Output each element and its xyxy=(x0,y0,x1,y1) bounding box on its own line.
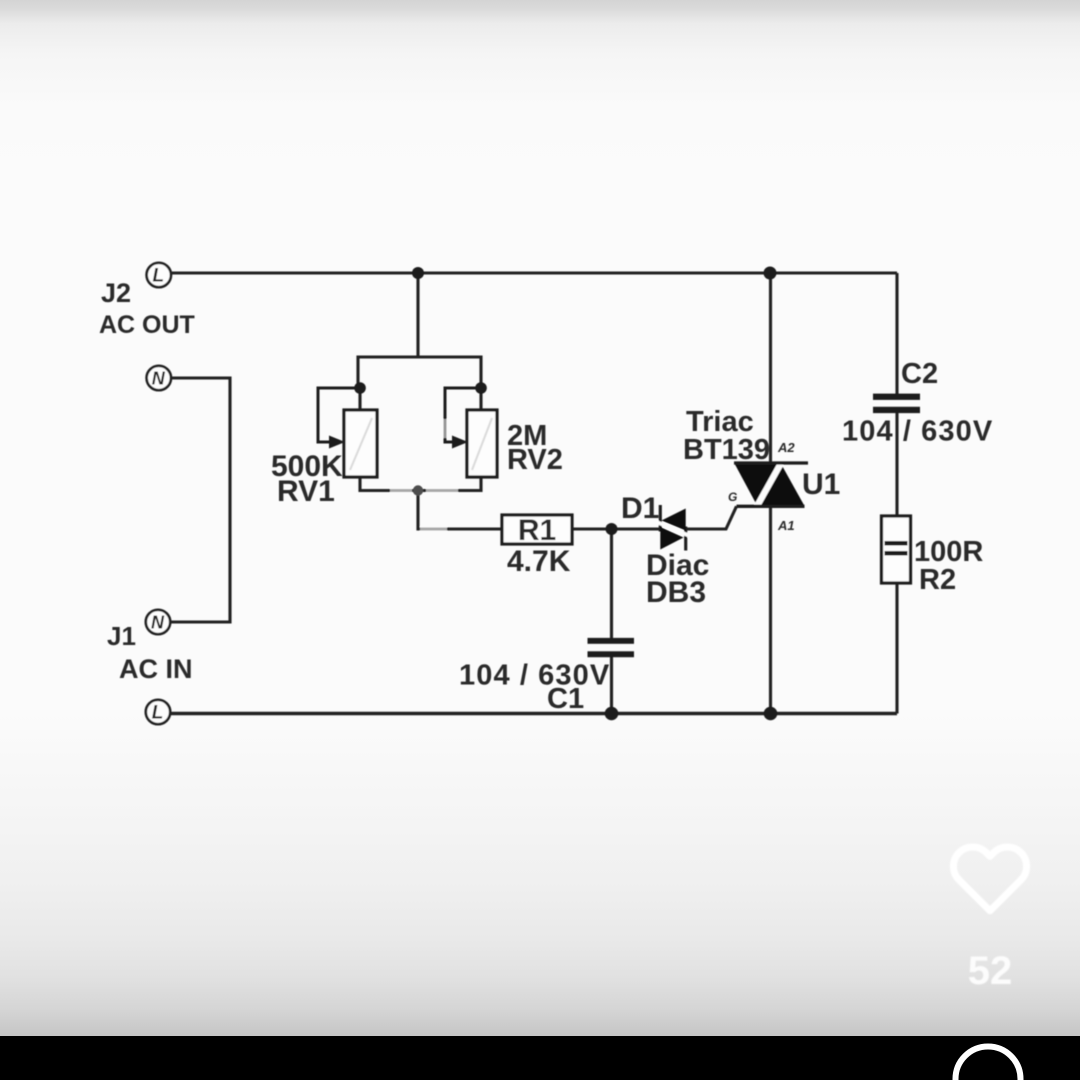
wire pot top rail xyxy=(358,357,481,388)
svg-text:L: L xyxy=(152,703,164,724)
svg-text:BT139: BT139 xyxy=(683,434,770,466)
terminal J1 L xyxy=(146,700,170,724)
diac D1 xyxy=(656,505,691,551)
terminal J2 N xyxy=(147,366,171,390)
svg-text:RV1: RV1 xyxy=(277,475,335,508)
wire C1 drop xyxy=(610,529,613,639)
wire R1 to node xyxy=(572,527,660,530)
wire right branch vertical (C2/R2 branch) xyxy=(895,273,898,395)
svg-text:J2: J2 xyxy=(101,278,131,308)
potentiometer RV1 ghost diagonal xyxy=(350,418,372,470)
node dot RV2 wiper xyxy=(475,382,487,394)
wire pot feed from top rail xyxy=(416,273,419,357)
node dot top-right xyxy=(764,267,777,280)
svg-text:C1: C1 xyxy=(547,683,584,715)
svg-text:U1: U1 xyxy=(802,468,840,501)
wire diac to triac gate xyxy=(686,506,737,529)
terminal J1 N xyxy=(146,610,170,634)
wire neutral link J2N to J1N xyxy=(171,378,230,622)
terminal J2 L xyxy=(147,263,171,287)
svg-text:52: 52 xyxy=(968,949,1013,993)
svg-text:L: L xyxy=(152,266,164,287)
svg-text:104 / 630V: 104 / 630V xyxy=(459,660,610,692)
wire RV1 leads xyxy=(358,388,361,410)
potentiometer RV2 wiper arm xyxy=(445,388,481,449)
svg-text:AC IN: AC IN xyxy=(119,654,193,684)
bottom black bar xyxy=(0,1036,1080,1080)
potentiometer RV2 ghost diagonal xyxy=(472,418,492,470)
profile circle (bottom UI) xyxy=(956,1047,1021,1080)
resistor R1 body xyxy=(502,515,572,544)
svg-text:N: N xyxy=(152,369,166,389)
triac U1 xyxy=(734,462,808,507)
svg-text:4.7K: 4.7K xyxy=(507,545,571,578)
node dot R1/C1/diac junction xyxy=(606,523,618,535)
wire RV2 leads xyxy=(479,388,482,410)
capacitor C2 plates xyxy=(873,394,920,413)
potentiometer RV1 wiper arm xyxy=(318,388,360,449)
svg-text:G: G xyxy=(728,490,737,504)
wire pot output to R1 xyxy=(418,491,502,529)
capacitor C1 plates xyxy=(588,638,635,657)
svg-text:R1: R1 xyxy=(518,514,556,547)
svg-text:J1: J1 xyxy=(107,621,136,651)
wire fade artifacts (video compression) xyxy=(390,491,458,530)
wire pot bottom rail xyxy=(360,489,481,492)
svg-text:A1: A1 xyxy=(777,518,795,533)
wire triac vertical xyxy=(769,273,772,714)
node dot pot output (gray) xyxy=(413,485,423,495)
node dot bottom C1 xyxy=(605,707,619,721)
resistor R2 inner bands xyxy=(885,541,908,556)
svg-text:C2: C2 xyxy=(901,358,938,390)
like heart icon xyxy=(953,847,1026,993)
wire bottom rail xyxy=(170,712,897,715)
potentiometer RV2 body xyxy=(467,410,497,477)
node dot RV1 wiper xyxy=(354,382,366,394)
svg-text:A2: A2 xyxy=(777,440,795,455)
node dot bottom triac xyxy=(764,707,778,721)
node dot top-left xyxy=(412,267,424,279)
svg-text:DB3: DB3 xyxy=(646,576,706,609)
wire top rail (L of J2 to right branch) xyxy=(169,271,897,274)
svg-text:104 / 630V: 104 / 630V xyxy=(842,416,993,448)
resistor R2 body xyxy=(882,516,911,583)
svg-text:D1: D1 xyxy=(621,492,659,525)
svg-text:R2: R2 xyxy=(919,564,956,596)
svg-text:RV2: RV2 xyxy=(507,444,563,476)
potentiometer RV1 body xyxy=(344,410,377,477)
svg-text:N: N xyxy=(151,613,165,633)
svg-text:AC OUT: AC OUT xyxy=(99,311,195,339)
